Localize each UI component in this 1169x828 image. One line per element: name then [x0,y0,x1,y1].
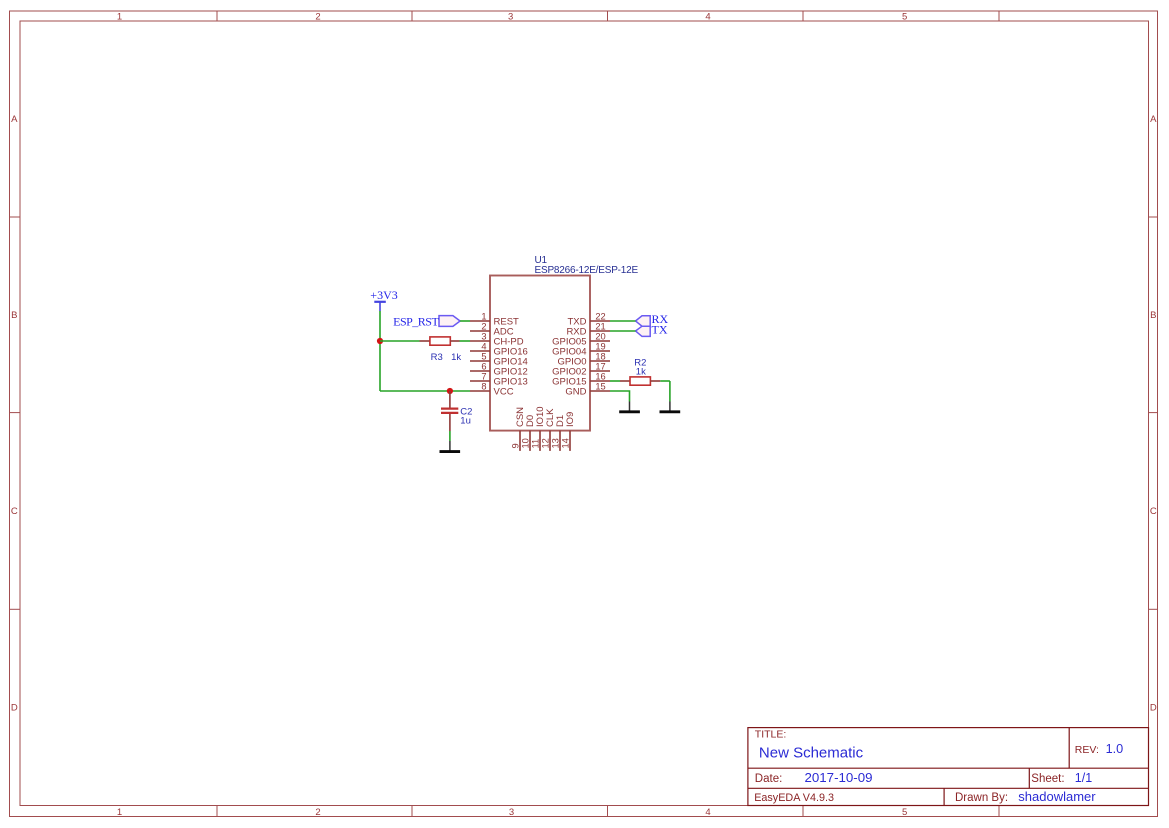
svg-text:A: A [11,114,18,125]
svg-text:TITLE:: TITLE: [755,728,787,740]
svg-text:10: 10 [521,438,531,448]
power flag +3V3 bar [374,301,386,303]
svg-text:REV:: REV: [1075,744,1099,756]
svg-text:1k: 1k [636,367,646,378]
svg-text:3: 3 [509,807,514,818]
svg-text:20: 20 [595,331,605,341]
svg-text:11: 11 [531,439,541,449]
svg-text:IO9: IO9 [565,412,576,427]
svg-text:shadowlamer: shadowlamer [1018,789,1096,804]
power flag +3V3 stem [379,302,381,311]
svg-text:1u: 1u [460,415,471,426]
wire C2 to ground [449,431,451,441]
svg-text:1/1: 1/1 [1075,771,1092,785]
svg-text:5: 5 [902,11,907,22]
svg-text:16: 16 [595,371,605,381]
svg-text:1: 1 [481,311,486,321]
svg-text:ESP8266-12E/ESP-12E: ESP8266-12E/ESP-12E [535,265,639,276]
svg-text:2: 2 [481,321,486,331]
wire +3V3 vertical to VCC row [379,311,381,391]
svg-text:14: 14 [561,438,571,448]
svg-text:VCC: VCC [494,386,514,397]
svg-text:C: C [1150,506,1157,517]
svg-text:22: 22 [595,311,605,321]
svg-text:B: B [1150,310,1156,321]
net flag TX [636,322,668,336]
junction at VCC / C2 [447,388,453,394]
svg-text:19: 19 [595,341,605,351]
wire R2 down [669,381,671,402]
junction at +3V3 / R3 [377,338,383,344]
svg-text:D: D [11,702,18,713]
wire GND pin 15 [610,391,630,402]
svg-text:Sheet:: Sheet: [1031,773,1064,785]
svg-text:13: 13 [551,438,561,448]
svg-text:6: 6 [481,361,486,371]
svg-text:TX: TX [652,322,668,336]
U1 right pins 22-15 lines [590,321,610,391]
svg-text:2017-10-09: 2017-10-09 [805,770,873,785]
svg-text:2: 2 [315,807,320,818]
resistor R2 [610,357,670,385]
net flag ESP_RST [393,314,460,328]
ground below R2 [660,402,681,412]
svg-text:4: 4 [481,341,486,351]
svg-text:New Schematic: New Schematic [759,745,864,762]
wire TXD to RX flag [610,320,636,322]
svg-text:C: C [11,506,18,517]
U1 left pin numbers [481,311,486,391]
U1 bottom pin numbers [511,438,571,448]
IC U1 body [490,276,590,431]
svg-text:Date:: Date: [755,773,783,785]
svg-text:15: 15 [595,381,605,391]
svg-text:3: 3 [508,11,513,22]
U1 left pins 1-8 lines [470,321,490,391]
svg-text:9: 9 [511,443,521,448]
svg-text:ESP_RST: ESP_RST [393,314,439,328]
U1 right pin names [552,316,586,397]
U1 right pin numbers [595,311,605,391]
svg-text:D: D [1150,702,1157,713]
title block [748,728,1149,806]
svg-text:GND: GND [565,386,586,397]
svg-text:1: 1 [117,11,122,22]
svg-text:5: 5 [902,807,907,818]
svg-text:18: 18 [595,351,605,361]
svg-text:4: 4 [705,11,710,22]
svg-text:1: 1 [117,807,122,818]
capacitor C2 [441,391,472,431]
net flag RX [636,312,669,326]
wire ESP_RST to pin 1 [460,320,470,322]
svg-text:1.0: 1.0 [1106,742,1124,756]
svg-text:12: 12 [541,438,551,448]
svg-text:2: 2 [315,11,320,22]
U1 bottom pins 9-14 lines [520,431,570,451]
svg-text:1k: 1k [451,352,461,363]
svg-text:Drawn By:: Drawn By: [955,792,1008,804]
svg-text:4: 4 [705,807,710,818]
svg-text:8: 8 [481,381,486,391]
svg-text:A: A [1150,114,1157,125]
svg-text:R3: R3 [431,352,443,363]
svg-text:EasyEDA V4.9.3: EasyEDA V4.9.3 [754,792,834,804]
wire VCC row horizontal [380,390,470,392]
U1 left pin names [494,316,528,397]
svg-text:21: 21 [595,321,605,331]
wire RXD to TX flag [610,330,636,332]
svg-text:U1: U1 [535,255,548,266]
svg-text:5: 5 [481,351,486,361]
svg-text:17: 17 [595,361,605,371]
svg-text:7: 7 [481,371,486,381]
U1 bottom pin names [515,406,576,427]
svg-text:3: 3 [481,331,486,341]
svg-text:B: B [11,310,17,321]
ground below C2 [440,441,461,452]
resistor R3 [380,337,470,363]
ground below pin 15 [619,402,640,412]
svg-text:+3V3: +3V3 [370,288,397,302]
